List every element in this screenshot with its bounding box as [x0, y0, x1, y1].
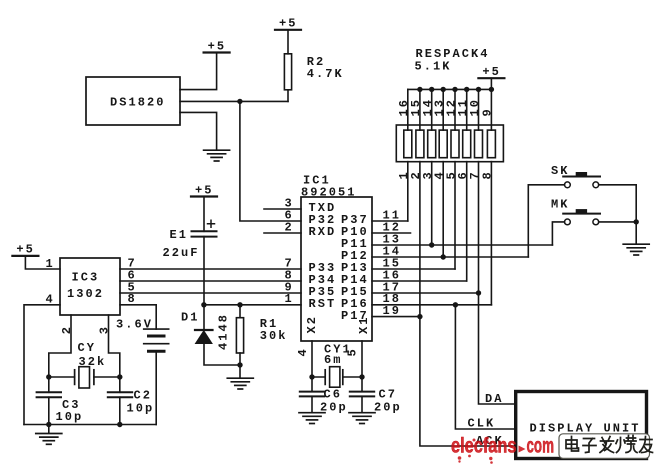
- junction rail C2: [117, 422, 122, 427]
- svg-text:com: com: [527, 435, 555, 458]
- watermark elecfans.com: [451, 435, 554, 464]
- svg-text:4.7K: 4.7K: [307, 67, 344, 81]
- junction bus x419.9: [417, 87, 422, 92]
- respack resistor element pin 16: [407, 89, 409, 130]
- svg-text:C2: C2: [134, 388, 153, 402]
- junction bus x443.2: [441, 87, 446, 92]
- junction bus x491.4: [489, 87, 494, 92]
- junction RST/E1/D1: [201, 302, 206, 307]
- svg-text:3: 3: [97, 325, 111, 334]
- svg-text:22uF: 22uF: [163, 246, 200, 260]
- +5 supply (R2): [275, 17, 301, 31]
- svg-text:E1: E1: [170, 228, 189, 242]
- junction bus x478.5: [476, 87, 481, 92]
- +5 supply (respack): [478, 65, 504, 79]
- +5 supply (E1): [191, 183, 217, 197]
- junction buttons common: [634, 219, 639, 224]
- svg-text:2: 2: [285, 220, 294, 234]
- svg-text:20p: 20p: [374, 401, 402, 415]
- +5 supply (IC3): [12, 243, 38, 257]
- respack resistor element pin 12: [454, 89, 456, 130]
- junction bus x455: [452, 87, 457, 92]
- wire P37 row pin11: [372, 220, 408, 222]
- capacitor C2 10p: [119, 377, 121, 392]
- capacitor C6 20p: [300, 391, 324, 393]
- capacitor C3 10p: [48, 377, 50, 392]
- svg-text:4: 4: [296, 347, 310, 356]
- junction bus x431.7: [429, 87, 434, 92]
- respack resistor element pin 13: [442, 89, 444, 130]
- wire P11 row pin13 to MK: [372, 244, 552, 246]
- svg-text:+5: +5: [16, 243, 35, 257]
- wire DS1820 DQ data line: [180, 100, 288, 102]
- junction X1 node: [359, 374, 364, 379]
- svg-text:10: 10: [468, 98, 482, 117]
- junction CLK branch: [453, 302, 458, 307]
- wire +5 to R2 top: [287, 30, 289, 54]
- wire respack pin8 to P16 row: [490, 162, 492, 305]
- respack resistor element pin 10: [478, 89, 480, 130]
- svg-text:DS1820: DS1820: [110, 96, 166, 110]
- wire +5 to IC3 pin1: [25, 256, 60, 269]
- watermark chinese characters: [566, 436, 653, 453]
- svg-text:RXD: RXD: [309, 225, 337, 239]
- wire IC3 pin2 to crystal: [49, 315, 71, 377]
- junction XTAL2: [117, 374, 122, 379]
- wire DS1820 VCC to +5: [180, 53, 217, 90]
- junction pin2-P17: [417, 314, 422, 319]
- wire DS1820 GND down: [180, 112, 217, 149]
- svg-text:X2: X2: [305, 315, 319, 334]
- wire P17 row pin19: [372, 316, 420, 318]
- junction RST/R1: [237, 302, 242, 307]
- wire rail to ground: [48, 425, 50, 433]
- wire IC3 pin4 to ground rail: [24, 305, 60, 425]
- svg-text:4: 4: [46, 293, 55, 307]
- svg-text:7: 7: [468, 170, 482, 179]
- pushbutton MK: [563, 213, 600, 215]
- wire MK to common: [599, 221, 637, 223]
- svg-text:4148: 4148: [216, 313, 230, 350]
- ground (D1/R1): [227, 378, 253, 389]
- E1 plus polarity mark: [208, 220, 215, 227]
- svg-text:6m: 6m: [324, 353, 343, 367]
- respack resistor element pin 15: [419, 89, 421, 130]
- junction XTAL1: [46, 374, 51, 379]
- wire respack pin3 to P11 row: [431, 162, 433, 245]
- svg-text:elecfans: elecfans: [451, 435, 517, 458]
- svg-text:9: 9: [481, 107, 495, 116]
- wire P12 row pin14 to SK: [372, 256, 528, 258]
- svg-text:2: 2: [60, 325, 74, 334]
- svg-text:1: 1: [46, 257, 55, 271]
- resistor pack RESPACK4 box: [396, 125, 503, 162]
- ground (C6): [299, 413, 325, 424]
- junction X2 node: [309, 374, 314, 379]
- respack resistor element pin 9: [490, 89, 492, 130]
- svg-text:MK: MK: [551, 198, 570, 212]
- diode D1 4148: [203, 305, 205, 330]
- wire P13 row pin15: [372, 268, 455, 270]
- svg-text:+5: +5: [208, 39, 227, 53]
- wire IC3 pin3 to crystal: [109, 315, 120, 377]
- wire P14 row pin16: [372, 280, 467, 282]
- wire SK to P12 row: [528, 185, 564, 257]
- svg-text:892051: 892051: [301, 185, 357, 199]
- node DQ junction: [237, 99, 242, 104]
- wire respack pin6 to P14 row: [466, 162, 468, 281]
- svg-text:D1: D1: [181, 311, 200, 325]
- pushbutton SK: [563, 176, 600, 178]
- junction pin7-P15: [476, 290, 481, 295]
- wire IC1 X2 pin4 down: [311, 341, 313, 392]
- svg-text:20p: 20p: [320, 401, 348, 415]
- junction D1/R1 bottom: [237, 362, 242, 367]
- ground (C7): [349, 413, 375, 424]
- svg-text:+5: +5: [482, 65, 501, 79]
- svg-text:+5: +5: [279, 17, 298, 31]
- wire P16 branch to display CLK: [455, 305, 514, 429]
- wire SK to common: [599, 185, 637, 222]
- wire P15 row pin17: [372, 292, 479, 294]
- +5 supply (DS1820): [204, 39, 230, 53]
- wire P10 stub pin12: [372, 232, 411, 234]
- temperature sensor DS1820: [86, 77, 180, 125]
- wire P16 row pin18: [372, 304, 491, 306]
- wire IC1 X1 pin5 down: [361, 341, 363, 392]
- svg-text:IC3: IC3: [72, 271, 100, 285]
- svg-text:CLK: CLK: [468, 416, 496, 430]
- wire IC3 pin8 to battery: [120, 305, 156, 329]
- svg-text:DA: DA: [485, 392, 504, 406]
- wire IC3 pin5 to IC1 P35: [120, 292, 301, 294]
- wire R2 bottom to DQ: [287, 90, 289, 102]
- svg-text:CY: CY: [78, 341, 97, 355]
- svg-text:8: 8: [481, 170, 495, 179]
- junction bus x466.7: [464, 87, 469, 92]
- respack resistor element pin 14: [431, 89, 433, 130]
- svg-text:19: 19: [383, 304, 402, 318]
- wire ground rail: [24, 424, 156, 426]
- junction pin4-P12: [441, 254, 446, 259]
- wire to ground: [239, 365, 241, 378]
- wire RXD stub pin2: [264, 232, 301, 234]
- ground (DS1820): [204, 150, 230, 161]
- wire common to ground: [635, 222, 637, 244]
- capacitor E1 22uF electrolytic: [203, 197, 205, 232]
- resistor R2: [284, 54, 291, 90]
- svg-text:1302: 1302: [67, 287, 104, 301]
- svg-text:10p: 10p: [127, 402, 155, 416]
- wire battery minus to rail: [155, 351, 157, 424]
- wire respack common bus: [408, 78, 492, 89]
- svg-text:X1: X1: [357, 315, 371, 334]
- wire respack pin1 to P37 row: [407, 162, 409, 221]
- wire DQ to IC1 P32 pin6: [240, 101, 301, 221]
- respack resistor element pin 11: [466, 89, 468, 130]
- wire RST net: [204, 304, 301, 306]
- ground (buttons): [623, 244, 649, 255]
- svg-text:+5: +5: [195, 183, 214, 197]
- svg-text:RST: RST: [309, 297, 337, 311]
- wire respack pin4 to P12 row: [442, 162, 444, 257]
- wire IC3 pin7 to IC1 P33: [120, 268, 301, 270]
- wire MK to P11 row: [552, 222, 564, 245]
- microcontroller IC1 892051: [301, 197, 372, 341]
- wire respack pin7 / P15 / display DA line: [479, 162, 515, 404]
- DISPLAY UNIT box: [516, 392, 647, 459]
- resistor R1 30k: [239, 305, 241, 318]
- wire respack pin2 / P17 / display third line: [420, 162, 514, 446]
- svg-text:10p: 10p: [56, 410, 84, 424]
- wire respack pin5 to P13 row: [454, 162, 456, 269]
- junction pin3-P11: [429, 242, 434, 247]
- capacitor C7 20p: [350, 391, 374, 393]
- svg-text:5.1K: 5.1K: [415, 59, 452, 73]
- wire TXD stub pin3: [264, 208, 301, 210]
- ground (IC3 rail): [36, 434, 62, 445]
- svg-text:30k: 30k: [260, 329, 288, 343]
- junction rail C3: [46, 422, 51, 427]
- wire IC3 pin6 to IC1 P34: [120, 280, 301, 282]
- RTC IC3 1302: [60, 258, 120, 315]
- watermark white box: [559, 434, 650, 459]
